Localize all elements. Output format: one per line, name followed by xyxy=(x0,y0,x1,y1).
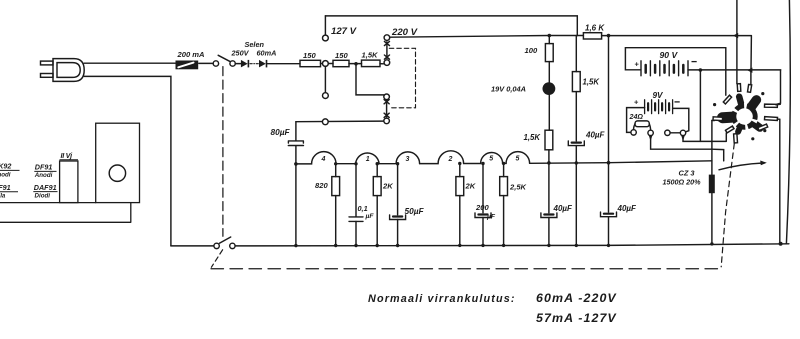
capacitor 50uF xyxy=(390,215,406,220)
svg-text:9V: 9V xyxy=(653,91,665,100)
socket lug top a xyxy=(737,84,741,92)
wire 150b to 1,5K xyxy=(349,63,362,65)
dash-dot link between diodes xyxy=(250,63,259,65)
wire junction down and right to circle C xyxy=(356,66,384,95)
svg-text:4: 4 xyxy=(321,156,326,163)
mains plug P1 xyxy=(41,59,85,82)
127V terminal circle xyxy=(323,35,329,41)
svg-text:2K: 2K xyxy=(465,182,476,191)
socket pin wire stub xyxy=(712,120,715,122)
junction dot 90V minus xyxy=(699,68,703,72)
svg-text:19V 0,04A: 19V 0,04A xyxy=(491,85,526,94)
filament hump 1 xyxy=(336,153,379,164)
top vertical to socket xyxy=(736,0,738,84)
svg-text:II Vj: II Vj xyxy=(61,151,74,160)
dashed diagonal to socket xyxy=(721,144,734,267)
junction dot x608 filament xyxy=(607,161,611,165)
filament hump 2 xyxy=(420,151,464,164)
filament hump 5b xyxy=(503,152,530,164)
svg-text:57mA -127V: 57mA -127V xyxy=(536,311,617,325)
resistor 1,5K c xyxy=(545,130,553,150)
wire 90V plus down to socket lug xyxy=(725,48,727,95)
svg-text:40µF: 40µF xyxy=(617,204,638,213)
socket lug lower-right xyxy=(758,124,768,130)
svg-text:CZ 3: CZ 3 xyxy=(679,169,696,178)
selenium rectifier diode 2 xyxy=(259,60,267,68)
svg-text:60mA: 60mA xyxy=(257,48,277,57)
resistor 2,5K xyxy=(500,177,508,196)
svg-text:820: 820 xyxy=(315,181,328,190)
socket black ring xyxy=(731,103,757,129)
switch contact c2 xyxy=(648,130,653,135)
filament hump 5a xyxy=(464,152,503,163)
mains switch S1a terminal 2 xyxy=(230,61,235,66)
mains switch S1a blade xyxy=(218,55,230,62)
svg-text:DF91: DF91 xyxy=(0,183,11,192)
svg-text:5: 5 xyxy=(516,156,520,163)
mains selector dashed gang line xyxy=(222,67,224,237)
rail junction dots xyxy=(294,242,782,248)
resistor 2K xyxy=(373,177,381,196)
open terminal circle xyxy=(323,93,329,99)
90V minus drop to c4 wire xyxy=(699,70,701,141)
IIVj rectangle xyxy=(60,161,78,203)
svg-text:DAF91: DAF91 xyxy=(34,183,57,192)
wire diode to resistor 150a xyxy=(267,63,300,65)
socket right lug wire a xyxy=(776,103,780,106)
filament hump 4 xyxy=(296,152,336,164)
svg-text:1,5K: 1,5K xyxy=(362,50,379,59)
c2 stub and wire to socket area xyxy=(651,136,724,161)
socket lug left xyxy=(713,117,723,121)
B+ line from 220V to 1,6K xyxy=(390,36,584,38)
svg-text:1,5K: 1,5K xyxy=(583,78,601,87)
tube socket star xyxy=(723,97,760,132)
svg-text:200 mA: 200 mA xyxy=(177,50,205,59)
resistor 24ohm box xyxy=(635,121,649,127)
switch contact c1 xyxy=(631,130,636,135)
B+ line after 1,6K xyxy=(602,36,752,71)
svg-text:1,6 K: 1,6 K xyxy=(585,24,605,33)
c4 stub and wire xyxy=(683,133,726,141)
curved arrow xyxy=(719,161,767,170)
svg-text:1500Ω 20%: 1500Ω 20% xyxy=(663,178,702,187)
resistor 150a xyxy=(300,60,321,66)
90V battery plus routing wire xyxy=(625,48,725,70)
selector circle D xyxy=(384,118,390,124)
svg-text:90 V: 90 V xyxy=(660,50,679,60)
svg-text:Anodi: Anodi xyxy=(34,172,53,179)
svg-text:DF91: DF91 xyxy=(35,163,53,172)
24ohm leads xyxy=(634,124,651,130)
capacitor 0,1uF drop xyxy=(355,164,357,246)
9V battery plus routing xyxy=(627,108,645,133)
resistor 100 branch xyxy=(548,36,550,131)
svg-text:1,5K: 1,5K xyxy=(524,133,542,142)
low B+ wire to 80uF xyxy=(296,120,384,123)
switch contact c3 xyxy=(665,130,670,135)
filament hump 3 xyxy=(379,152,420,164)
speaker circle xyxy=(109,165,125,181)
socket pin vertical to CZ3 xyxy=(711,121,713,244)
bottom switch terminal 1 xyxy=(214,243,219,248)
svg-text:250V: 250V xyxy=(231,48,250,57)
mains switch S1a terminal xyxy=(213,61,218,66)
svg-text:80µF: 80µF xyxy=(271,127,291,137)
capacitor 200uF xyxy=(475,213,491,218)
c2 stub blob xyxy=(649,136,652,141)
capacitor 40uF a xyxy=(541,213,557,218)
svg-text:2K: 2K xyxy=(382,182,393,191)
fuse 200mA xyxy=(176,61,198,69)
swap arrow A-B xyxy=(384,41,389,59)
top wire 127V to B+ xyxy=(325,16,577,36)
resistor 1,5K a xyxy=(362,60,381,67)
resistor 820 drop xyxy=(335,164,337,246)
tap stub below first junction xyxy=(324,66,326,92)
label minus 90V xyxy=(692,61,697,63)
selector dashed box xyxy=(389,48,415,108)
svg-text:+: + xyxy=(635,59,640,68)
middle vertical with 40uF b xyxy=(575,36,577,246)
svg-text:3: 3 xyxy=(406,156,410,163)
svg-text:150: 150 xyxy=(335,51,348,60)
svg-text:Diodi: Diodi xyxy=(35,192,51,199)
bottom rail main xyxy=(235,244,789,246)
90V battery minus wire xyxy=(688,69,781,71)
svg-text:200: 200 xyxy=(475,203,489,212)
wire c3 to c4 xyxy=(670,132,680,134)
resistor 820 xyxy=(332,177,340,196)
svg-text:DK92: DK92 xyxy=(0,162,11,171)
socket spikes xyxy=(723,97,760,132)
9V minus routing to c4 xyxy=(673,108,689,131)
right vertical from 90V minus to socket lug a xyxy=(777,70,781,104)
capacitor 80uF riser xyxy=(295,122,297,246)
svg-text:100: 100 xyxy=(525,46,538,55)
svg-text:5: 5 xyxy=(489,156,493,163)
svg-text:1: 1 xyxy=(366,156,370,163)
speaker box xyxy=(96,123,140,202)
terminal circle on low wire xyxy=(322,119,328,125)
resistor 1,6K xyxy=(583,33,601,39)
c4 stub blob xyxy=(681,136,684,141)
svg-text:Normaali virrankulutus:: Normaali virrankulutus: xyxy=(368,293,516,305)
svg-text:2: 2 xyxy=(448,156,453,163)
junction dot filament 1,5K xyxy=(547,161,551,165)
junction dot node xyxy=(354,62,358,66)
resistor 150b xyxy=(333,60,349,66)
capacitor 40uF c xyxy=(601,212,617,217)
junction dot filament start xyxy=(294,162,298,166)
thermistor CZ3 xyxy=(709,175,715,194)
socket white gaps xyxy=(732,103,758,131)
svg-text:2,5K: 2,5K xyxy=(509,183,527,192)
capacitor 0,1uF xyxy=(349,217,363,222)
svg-text:150: 150 xyxy=(303,51,316,60)
wire plug bottom, down to rail xyxy=(84,76,171,246)
switch contact c4 xyxy=(680,130,685,135)
socket lug top b xyxy=(748,85,752,93)
capacitor 50uF drop xyxy=(397,164,399,246)
junction dot B+ 100 xyxy=(548,34,552,38)
127V tap stub up xyxy=(324,16,326,35)
svg-text:60mA -220V: 60mA -220V xyxy=(536,291,617,305)
9V battery cells xyxy=(645,100,673,114)
svg-text:50µF: 50µF xyxy=(405,206,425,216)
filament junction dots xyxy=(334,161,578,165)
socket lug bottom xyxy=(734,134,738,143)
svg-text:µF: µF xyxy=(486,214,496,221)
svg-text:Hila: Hila xyxy=(0,193,6,200)
capacitor 200uF drop xyxy=(482,164,484,246)
swap arrow C-D xyxy=(384,100,389,118)
junction arrow 90V minus xyxy=(747,68,752,73)
junction dot x608 top xyxy=(607,34,611,38)
svg-text:24Ω: 24Ω xyxy=(629,113,644,121)
socket guide dots xyxy=(713,92,766,140)
socket lug right b xyxy=(765,117,778,121)
socket lug upper-left xyxy=(723,95,731,104)
bottom rail left xyxy=(171,245,214,247)
capacitor 40uF a drop xyxy=(548,150,550,246)
svg-text:0,1: 0,1 xyxy=(358,204,368,213)
resistor 2,5K drop xyxy=(503,163,505,245)
capacitor 80uF xyxy=(288,141,303,146)
wire 150a to 150b with tap xyxy=(321,63,334,65)
right vertical from socket lug b to rail xyxy=(779,119,781,243)
svg-text:220 V: 220 V xyxy=(391,27,419,38)
bottom switch blade xyxy=(219,237,230,243)
resistor 100 xyxy=(545,44,553,62)
wire 1,5K to selector circle B xyxy=(380,63,384,65)
bottom switch terminal 2 xyxy=(230,243,235,248)
capacitor 40uF b xyxy=(568,141,584,146)
tap terminal circle on line xyxy=(323,61,329,67)
svg-text:127 V: 127 V xyxy=(331,26,358,37)
wire fuse to switch xyxy=(199,62,213,64)
resistor 2K second drop xyxy=(459,164,461,246)
wire switch to selenium diode xyxy=(235,63,240,65)
selector circle C xyxy=(384,94,390,100)
socket lug right a xyxy=(765,104,778,107)
svg-text:Anodi: Anodi xyxy=(0,172,11,179)
dial lamp 19V 0,04A xyxy=(543,82,556,95)
vertical x608 with 40uF c xyxy=(608,36,610,246)
selenium rectifier diode 1 xyxy=(241,60,249,68)
socket center hole xyxy=(736,108,752,124)
chassis bar xyxy=(0,203,131,223)
svg-text:40µF: 40µF xyxy=(585,131,606,140)
svg-text:40µF: 40µF xyxy=(553,204,574,213)
vertical 1,6K to 90V minus line xyxy=(750,70,752,84)
wire plug top to fuse xyxy=(84,62,176,64)
90V battery cells xyxy=(641,61,688,76)
socket lug bottom-left xyxy=(726,126,735,133)
selector circle B xyxy=(384,60,390,66)
svg-text:+: + xyxy=(634,97,639,106)
label minus 9V xyxy=(675,101,680,103)
junction arrow B+ top xyxy=(733,33,738,38)
resistor 1,5K b xyxy=(572,72,580,92)
selector circle A 220V xyxy=(384,35,390,41)
resistor 2K drop xyxy=(376,164,378,246)
svg-text:µF: µF xyxy=(365,213,375,220)
dashed diagonal to bottom dash rail xyxy=(211,250,222,267)
bottom dashed rail xyxy=(211,268,721,270)
filament line to right xyxy=(530,161,712,164)
far right vertical xyxy=(786,0,790,244)
resistor 2K second xyxy=(456,177,464,196)
socket right lug wire b xyxy=(777,118,780,120)
